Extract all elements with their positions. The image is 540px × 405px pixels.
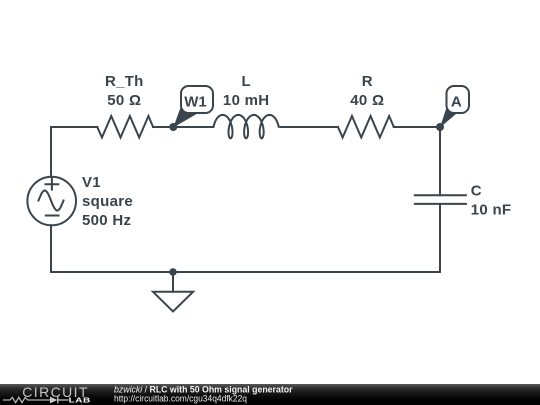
node W1 junction dot — [169, 123, 177, 131]
svg-text:V1: V1 — [82, 174, 101, 191]
wire: bottom rail — [51, 271, 440, 273]
svg-text:50 Ω: 50 Ω — [107, 92, 141, 109]
inductor L — [214, 115, 279, 138]
svg-text:10 nF: 10 nF — [471, 202, 512, 219]
wire: V1 to bottom rail — [50, 225, 52, 272]
wire: top-left horizontal from left rail to R_Th — [51, 126, 97, 128]
resistor R — [338, 116, 394, 138]
wire: left rail top (top wire down to V1) — [50, 127, 52, 177]
svg-text:L: L — [241, 73, 250, 90]
svg-text:R: R — [362, 73, 373, 90]
wire: node A down to capacitor C — [439, 127, 441, 195]
wire: inductor L to resistor R — [279, 126, 338, 128]
capacitor C top plate — [415, 194, 466, 196]
svg-text:500 Hz: 500 Hz — [82, 212, 131, 229]
svg-text:W1: W1 — [184, 93, 207, 110]
node label A — [440, 86, 469, 128]
wire: R_Th to inductor L (through node W1) — [153, 126, 213, 128]
svg-text:A: A — [451, 93, 462, 110]
wire: capacitor C to bottom rail — [439, 204, 441, 272]
CircuitLab logo: resistor squiggle — [3, 397, 50, 402]
resistor R_Th — [97, 116, 153, 138]
ground — [153, 272, 193, 312]
wire: R to node A — [394, 126, 440, 128]
svg-text:square: square — [82, 193, 133, 210]
ground junction dot — [169, 268, 177, 276]
svg-text:C: C — [471, 183, 482, 200]
voltage source V1 — [27, 177, 76, 226]
footer bar — [0, 384, 540, 405]
svg-text:R_Th: R_Th — [105, 73, 144, 90]
node label W1 — [173, 86, 213, 128]
capacitor C bottom plate — [415, 203, 466, 205]
CircuitLab logo: diode symbol — [50, 397, 69, 404]
svg-text:40 Ω: 40 Ω — [350, 92, 384, 109]
node A junction dot — [436, 123, 444, 131]
svg-text:10 mH: 10 mH — [223, 92, 270, 109]
